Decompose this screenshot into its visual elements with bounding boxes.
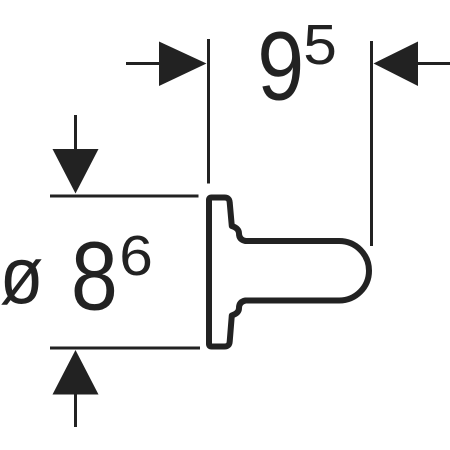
svg-text:6: 6: [119, 225, 153, 288]
svg-text:5: 5: [303, 14, 337, 77]
svg-text:8: 8: [71, 223, 118, 331]
svg-text:9: 9: [257, 13, 304, 121]
svg-text:ø: ø: [0, 231, 43, 321]
